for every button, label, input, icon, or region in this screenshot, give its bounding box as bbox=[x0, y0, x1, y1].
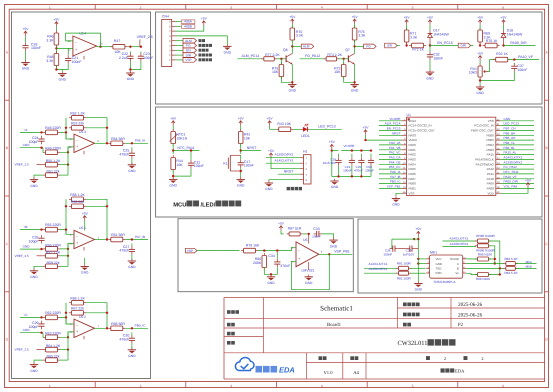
svg-text:R65 22k: R65 22k bbox=[46, 355, 59, 359]
svg-text:100nF: 100nF bbox=[194, 164, 204, 168]
resistor R69 3.3K bbox=[478, 28, 483, 45]
wire collector bbox=[291, 51, 293, 53]
resistor R62 220R bbox=[43, 315, 60, 320]
thermistor NTC1 10K1N bbox=[171, 129, 176, 146]
svg-text:6: 6 bbox=[502, 5, 504, 9]
svg-text:1uF/10V: 1uF/10V bbox=[403, 252, 416, 256]
resistor R52 (feedback 1.2K) bbox=[69, 115, 86, 120]
svg-text:+5V: +5V bbox=[363, 126, 370, 130]
svg-text:6: 6 bbox=[502, 384, 504, 388]
svg-text:+5V: +5V bbox=[268, 149, 275, 153]
pin 1 CN4 bbox=[172, 59, 176, 61]
pin 15 U1 PB01 bbox=[402, 187, 407, 189]
wire bbox=[331, 149, 333, 176]
wire bbox=[240, 144, 242, 154]
row page bbox=[426, 356, 430, 360]
svg-text:A14/CLK/TX1: A14/CLK/TX1 bbox=[369, 262, 388, 266]
pin 17 U1 VDD bbox=[496, 192, 501, 194]
svg-text:LED_PC13: LED_PC13 bbox=[504, 122, 520, 126]
resistor R79 10K bbox=[241, 248, 258, 253]
svg-text:A13/DIO/RX1: A13/DIO/RX1 bbox=[275, 153, 294, 157]
resistor R50 1.2K bbox=[43, 162, 60, 167]
wire bbox=[131, 332, 133, 335]
pin 4 U1 NRST bbox=[402, 134, 407, 136]
resistor R87 51R bbox=[287, 232, 303, 236]
svg-text:U5.1: U5.1 bbox=[79, 226, 86, 230]
svg-text:GND: GND bbox=[305, 281, 313, 285]
svg-text:GND: GND bbox=[476, 91, 484, 95]
svg-text:+5V: +5V bbox=[289, 15, 296, 19]
resistor R48 3.3K bbox=[54, 51, 59, 68]
svg-text:+5V: +5V bbox=[477, 16, 484, 20]
svg-text:PB3_BL: PB3_BL bbox=[504, 146, 516, 150]
svg-text:C33: C33 bbox=[313, 227, 319, 231]
net flag EN (CN4) bbox=[176, 49, 184, 51]
svg-text:GND: GND bbox=[170, 184, 178, 188]
svg-text:DIR: DIR bbox=[460, 44, 466, 48]
svg-text:10K: 10K bbox=[272, 70, 279, 74]
wire bbox=[172, 170, 174, 178]
svg-text:R84 5.1R: R84 5.1R bbox=[504, 271, 518, 275]
svg-text:GND: GND bbox=[289, 89, 297, 93]
svg-text:PA4_CB: PA4_CB bbox=[389, 160, 401, 164]
wire bbox=[190, 151, 192, 160]
resistor R83 5.1R bbox=[503, 262, 518, 266]
svg-text:EDA: EDA bbox=[279, 366, 295, 375]
ground (U1 VSS) bbox=[392, 196, 400, 206]
pin 27 U1 PB04 bbox=[496, 144, 501, 146]
svg-text:2.2uF: 2.2uF bbox=[119, 56, 128, 60]
svg-text:−: − bbox=[76, 323, 78, 327]
svg-text:A14/CLK/TX1: A14/CLK/TX1 bbox=[450, 237, 469, 241]
capacitor IA 470nF bbox=[129, 150, 135, 159]
svg-text:Board1: Board1 bbox=[327, 322, 342, 328]
svg-text:PA01: PA01 bbox=[409, 148, 416, 152]
pin 32 U1 VSS bbox=[496, 120, 501, 122]
resistor R82 100R bbox=[396, 271, 411, 275]
ground (Q8) bbox=[288, 82, 296, 92]
svg-text:+5V: +5V bbox=[53, 18, 60, 22]
wire bbox=[131, 244, 133, 247]
resistor R70 3.3K bbox=[290, 26, 295, 43]
resistor R59 22k bbox=[43, 264, 60, 269]
svg-text:MCU: MCU bbox=[173, 201, 186, 208]
svg-text:EN: EN bbox=[186, 49, 191, 53]
svg-text:NTC_PA11: NTC_PA11 bbox=[504, 170, 519, 174]
svg-text:R47: R47 bbox=[114, 39, 120, 43]
section box left analog bbox=[12, 12, 151, 379]
node collector bbox=[291, 45, 293, 47]
svg-text:PA02: PA02 bbox=[409, 153, 416, 157]
wire feedback right bbox=[86, 118, 107, 144]
version/size cells bbox=[319, 356, 323, 360]
power +5V (R43) bbox=[267, 117, 274, 126]
node R46/R48 junction bbox=[55, 47, 57, 49]
svg-text:VSS: VSS bbox=[409, 191, 415, 195]
svg-text:R87 51R: R87 51R bbox=[288, 227, 302, 231]
net flag FG (CN4) bbox=[176, 45, 184, 47]
wire bbox=[489, 241, 500, 268]
capacitor C08 100nF bbox=[368, 157, 374, 166]
svg-text:2025-06-26: 2025-06-26 bbox=[458, 312, 483, 318]
resistor RN85 N100R bbox=[475, 239, 491, 243]
section box RS485 bbox=[358, 219, 542, 293]
wire bbox=[354, 24, 356, 28]
svg-text:FG_PA12: FG_PA12 bbox=[305, 54, 320, 58]
svg-text:100nF: 100nF bbox=[517, 68, 527, 72]
pin 29 U1 PB06 bbox=[496, 134, 501, 136]
wire bbox=[417, 258, 419, 281]
svg-text:−: − bbox=[298, 248, 300, 252]
svg-text:+5V: +5V bbox=[23, 27, 30, 31]
svg-text:PB5_AH: PB5_AH bbox=[504, 136, 516, 140]
svg-text:PA7_IB: PA7_IB bbox=[135, 235, 145, 239]
wire bbox=[269, 126, 271, 130]
svg-text:PA05: PA05 bbox=[409, 167, 416, 171]
section box VSP opamp bbox=[178, 219, 353, 292]
svg-text:A14/CLK/TX1: A14/CLK/TX1 bbox=[504, 156, 523, 160]
wire bbox=[308, 262, 310, 270]
wire bottom rail bbox=[332, 175, 371, 177]
svg-text:VDD: VDD bbox=[487, 191, 494, 195]
ground (NTC) bbox=[169, 177, 177, 187]
pin 1 U1 Vcore bbox=[402, 120, 407, 122]
power +5V (R69) bbox=[477, 16, 484, 25]
svg-text:PC15-OSC32_OUT: PC15-OSC32_OUT bbox=[409, 129, 436, 133]
wire bbox=[240, 126, 242, 130]
ground (VREF caps) bbox=[126, 71, 134, 81]
svg-text:VCORE: VCORE bbox=[389, 117, 400, 121]
svg-text:470nF: 470nF bbox=[354, 169, 363, 173]
svg-text:R68 56R: R68 56R bbox=[111, 322, 125, 326]
svg-text:−: − bbox=[76, 235, 78, 239]
wire cap rail bbox=[392, 238, 418, 240]
ground (C32) bbox=[426, 70, 434, 80]
svg-text:−: − bbox=[76, 138, 78, 142]
wire GND H1 bbox=[269, 180, 300, 181]
svg-text:R32 1K: R32 1K bbox=[496, 52, 508, 56]
svg-text:+5V: +5V bbox=[267, 117, 274, 121]
svg-text:2: 2 bbox=[481, 356, 483, 361]
svg-text:4: 4 bbox=[321, 384, 323, 388]
svg-text:A14/CLK/TX1: A14/CLK/TX1 bbox=[275, 158, 294, 162]
net flag DIR bbox=[458, 43, 471, 48]
svg-text:PB4_CL: PB4_CL bbox=[504, 141, 516, 145]
svg-text:100pF: 100pF bbox=[29, 140, 39, 144]
svg-text:R50 1.2K: R50 1.2K bbox=[46, 159, 61, 163]
pin 19 U1 PA09 bbox=[496, 183, 501, 185]
label chinese VSP bbox=[199, 58, 202, 61]
wire bbox=[406, 25, 408, 30]
pin 3 MK1 TXD bbox=[426, 267, 430, 269]
svg-text:R48 220R: R48 220R bbox=[45, 126, 61, 130]
svg-text:LED1: LED1 bbox=[301, 134, 310, 138]
svg-text:A13/DIO/RX1: A13/DIO/RX1 bbox=[450, 242, 469, 246]
svg-text:NTC_PA11: NTC_PA11 bbox=[177, 146, 194, 150]
capacitor C28 100nF bbox=[22, 42, 28, 51]
svg-text:PA10_VF: PA10_VF bbox=[518, 55, 533, 59]
svg-text:GND: GND bbox=[128, 169, 136, 173]
wire feedback left bbox=[66, 118, 74, 139]
wire bbox=[264, 267, 277, 274]
pin 4 MK1 RXD bbox=[426, 272, 430, 274]
svg-text:R59 22k: R59 22k bbox=[46, 261, 59, 265]
wire emitter bbox=[291, 64, 293, 82]
pin 7 U1 PA01 bbox=[402, 149, 407, 151]
svg-text:+: + bbox=[76, 145, 78, 149]
net flag out Q8 bbox=[292, 45, 301, 47]
svg-text:R77 2.2K: R77 2.2K bbox=[265, 53, 280, 57]
svg-text:PA6_IA: PA6_IA bbox=[390, 170, 401, 174]
pin 6 U1 PA00 bbox=[402, 144, 407, 146]
svg-text:PA07: PA07 bbox=[409, 177, 416, 181]
svg-text:+5V: +5V bbox=[404, 16, 411, 20]
svg-text:R57 1.2K: R57 1.2K bbox=[46, 250, 61, 254]
resistor R86 N10K bbox=[475, 273, 491, 277]
wire bbox=[480, 72, 514, 81]
svg-text:VSP_PB1: VSP_PB1 bbox=[334, 249, 350, 253]
title block text bbox=[227, 310, 231, 314]
power +5V (CN4) bbox=[201, 17, 208, 26]
net 485A bbox=[176, 21, 182, 23]
svg-text:PA15: PA15 bbox=[487, 153, 494, 157]
svg-text:3.3K: 3.3K bbox=[410, 35, 418, 39]
svg-text:VOL_PA8: VOL_PA8 bbox=[504, 185, 518, 189]
led LED1 bbox=[301, 124, 309, 132]
svg-text:GND: GND bbox=[504, 117, 512, 121]
svg-text:470nF: 470nF bbox=[280, 264, 290, 268]
resistor R60 (feedback 22k) bbox=[69, 204, 86, 209]
svg-text:U5.2: U5.2 bbox=[79, 315, 86, 319]
power +5V (op-amp) bbox=[82, 212, 89, 221]
pin 8 CN4 bbox=[172, 25, 176, 27]
wire bbox=[366, 135, 402, 140]
svg-text:1N4148W: 1N4148W bbox=[433, 32, 449, 36]
wire bbox=[281, 231, 284, 234]
capacitor C18 10uF/16V bbox=[335, 157, 341, 166]
svg-text:10K: 10K bbox=[176, 163, 183, 167]
svg-text:+: + bbox=[298, 257, 300, 261]
svg-text:VDDA: VDDA bbox=[409, 138, 417, 142]
ground bbox=[128, 348, 136, 358]
svg-text:PB05: PB05 bbox=[486, 138, 494, 142]
svg-text:1: 1 bbox=[49, 5, 51, 9]
power +5V (R42) bbox=[238, 117, 245, 126]
svg-text:A13/DIO/RX1: A13/DIO/RX1 bbox=[369, 267, 388, 271]
wire bbox=[415, 248, 418, 250]
power +5V (R46) bbox=[53, 18, 60, 27]
svg-text:FG_PA12: FG_PA12 bbox=[504, 165, 518, 169]
svg-text:R43 10K: R43 10K bbox=[277, 122, 291, 126]
resistor R85 N10K bbox=[475, 257, 491, 261]
svg-text:A: A bbox=[457, 262, 459, 266]
ground bbox=[30, 362, 38, 372]
power +5V (U1 VDDA) bbox=[363, 126, 370, 135]
wire bbox=[172, 144, 174, 154]
svg-text:R58 1.2K: R58 1.2K bbox=[70, 193, 85, 197]
wire output bbox=[95, 327, 106, 329]
ground (op-amp) bbox=[81, 264, 89, 274]
resistor R64 1.2K bbox=[43, 347, 60, 352]
power +5V (U6) bbox=[278, 222, 285, 231]
ground bbox=[30, 269, 38, 279]
wire bbox=[429, 46, 431, 52]
ground (Q7) bbox=[350, 82, 358, 92]
capacitor C20 470nF bbox=[358, 157, 364, 166]
wire rail bbox=[332, 150, 339, 152]
wire output bbox=[95, 239, 106, 241]
logo JLC EDA bbox=[235, 357, 254, 370]
node bbox=[129, 68, 131, 70]
svg-text:PA10_VF: PA10_VF bbox=[504, 175, 517, 179]
ground (R48/C21) bbox=[58, 71, 66, 81]
svg-text:2: 2 bbox=[140, 384, 142, 388]
pin 6 CN4 bbox=[172, 35, 176, 37]
pin 7 CN4 bbox=[172, 30, 176, 32]
svg-text:R49 220R: R49 220R bbox=[45, 147, 61, 151]
svg-text:R55 220R: R55 220R bbox=[45, 223, 61, 227]
ground (VCORE caps) bbox=[330, 179, 338, 189]
wire to inverting input bbox=[56, 47, 73, 49]
wire bbox=[501, 188, 528, 194]
svg-text:MK1: MK1 bbox=[430, 250, 437, 254]
svg-text:+: + bbox=[76, 330, 78, 334]
wire feedback loop U6 bbox=[292, 254, 330, 289]
wire bbox=[25, 51, 27, 61]
svg-text:U6: U6 bbox=[303, 238, 308, 242]
svg-text:PA6_IA: PA6_IA bbox=[135, 139, 146, 143]
svg-text:R81 100R: R81 100R bbox=[397, 262, 412, 266]
pin 13 U1 PA07 bbox=[402, 178, 407, 180]
svg-text:2: 2 bbox=[140, 5, 142, 9]
pin 24 U1 PA14/SWCLK bbox=[496, 158, 501, 160]
pin 8 MK1 B bbox=[463, 267, 467, 269]
svg-text:PB01: PB01 bbox=[409, 187, 417, 191]
pin 7 MK1 Vo bbox=[463, 272, 467, 274]
wire bbox=[417, 236, 419, 258]
svg-text:NRST: NRST bbox=[392, 131, 401, 135]
diode D18 1N4148W bbox=[501, 30, 506, 41]
svg-text:GND: GND bbox=[436, 262, 442, 266]
svg-text:+: + bbox=[75, 48, 77, 52]
wire bbox=[258, 247, 296, 250]
net flag VSP (CN4) bbox=[176, 59, 184, 61]
wire bbox=[55, 27, 57, 31]
ground bbox=[30, 177, 38, 187]
resistor R81 100R bbox=[396, 266, 411, 270]
svg-text:VREF_2.5: VREF_2.5 bbox=[15, 254, 30, 258]
svg-text:PA1_VB: PA1_VB bbox=[389, 146, 400, 150]
svg-text:1N4148W: 1N4148W bbox=[507, 32, 523, 36]
svg-text:100pF: 100pF bbox=[29, 325, 39, 329]
pin 9 MK1 A bbox=[463, 263, 467, 265]
node output U5.4 bbox=[99, 46, 101, 48]
svg-text:CN4: CN4 bbox=[162, 15, 169, 19]
svg-text:C34: C34 bbox=[268, 254, 274, 258]
svg-text:/LED/: /LED/ bbox=[201, 201, 216, 208]
svg-text:Vo: Vo bbox=[455, 271, 459, 275]
pin 9 U1 PA03 bbox=[402, 158, 407, 160]
svg-text:EN_PC15: EN_PC15 bbox=[387, 127, 401, 131]
svg-text:R53 22k: R53 22k bbox=[71, 122, 84, 126]
capacitor C17 100nF bbox=[238, 160, 244, 169]
capacitor IA 100pF bbox=[38, 136, 44, 145]
svg-text:100nF: 100nF bbox=[343, 169, 352, 173]
svg-text:VSP: VSP bbox=[185, 58, 191, 62]
pin 22 U1 PA12 bbox=[496, 168, 501, 170]
svg-text:PB0_IC: PB0_IC bbox=[390, 180, 401, 184]
svg-text:100nF: 100nF bbox=[365, 169, 374, 173]
svg-text:+5V: +5V bbox=[427, 16, 434, 20]
node bbox=[129, 46, 131, 48]
pin 26 U1 PB03 bbox=[496, 149, 501, 151]
svg-text:+5V: +5V bbox=[278, 222, 285, 226]
wire bbox=[60, 244, 74, 249]
power +5V (VCORE rail) bbox=[329, 140, 336, 149]
svg-text:+5V: +5V bbox=[415, 227, 422, 231]
wire bbox=[60, 255, 68, 257]
resistor R80 200K bbox=[262, 253, 267, 270]
wire bbox=[398, 248, 406, 250]
resistor R49 220R bbox=[43, 150, 60, 155]
svg-text:200K: 200K bbox=[253, 261, 262, 265]
wire collector bbox=[354, 51, 356, 53]
power +5V (Q8) bbox=[289, 15, 296, 24]
capacitor C33 100nF bbox=[314, 231, 323, 237]
wire 485B row bbox=[466, 267, 503, 269]
svg-text:470nF: 470nF bbox=[119, 153, 129, 157]
pin 4 CN4 bbox=[172, 45, 176, 47]
wire bbox=[42, 316, 44, 318]
ground (CN4) bbox=[223, 44, 231, 54]
wire +5V from CN4 bbox=[176, 26, 204, 31]
svg-text:R51 22k: R51 22k bbox=[46, 170, 59, 174]
label chinese DIR bbox=[199, 54, 202, 57]
capacitor C19 100nF bbox=[349, 157, 355, 166]
svg-text:ALM_PC14: ALM_PC14 bbox=[385, 122, 401, 126]
svg-text:3.3K: 3.3K bbox=[46, 59, 54, 63]
svg-text:A13/DIO/RX1: A13/DIO/RX1 bbox=[504, 160, 523, 164]
svg-text:5: 5 bbox=[412, 384, 414, 388]
svg-text:+5V: +5V bbox=[352, 15, 359, 19]
wire bbox=[280, 59, 282, 64]
capacitor C35 1uF/10V bbox=[407, 246, 416, 252]
svg-text:PB6_BH: PB6_BH bbox=[504, 131, 516, 135]
wire bbox=[172, 126, 174, 130]
net flag out Q7 bbox=[355, 45, 364, 47]
wire bbox=[471, 45, 474, 47]
pin 20 U1 PA10 bbox=[496, 178, 501, 180]
svg-text:R70 1K: R70 1K bbox=[486, 39, 498, 43]
pin 1 H1 bbox=[300, 157, 304, 159]
svg-text:3.3K: 3.3K bbox=[46, 38, 54, 42]
svg-text:GND: GND bbox=[267, 281, 275, 285]
label chinese download/debug bbox=[287, 187, 290, 190]
net 485B bbox=[176, 25, 182, 27]
svg-text:GND: GND bbox=[128, 354, 136, 358]
svg-text:B: B bbox=[457, 267, 459, 271]
svg-text:PA14/SWCLK: PA14/SWCLK bbox=[475, 158, 494, 162]
power +5V (RV1) bbox=[477, 51, 484, 60]
svg-text:2: 2 bbox=[444, 356, 446, 361]
wire feedback left bbox=[66, 199, 74, 234]
capacitor C31 100nF bbox=[188, 160, 194, 169]
pin 1 MK1 VCC bbox=[426, 258, 430, 260]
resistor R56 220R bbox=[43, 247, 60, 252]
svg-text:Vcore: Vcore bbox=[409, 119, 417, 123]
svg-text:+5V: +5V bbox=[329, 140, 336, 144]
svg-text:PA00: PA00 bbox=[409, 143, 416, 147]
